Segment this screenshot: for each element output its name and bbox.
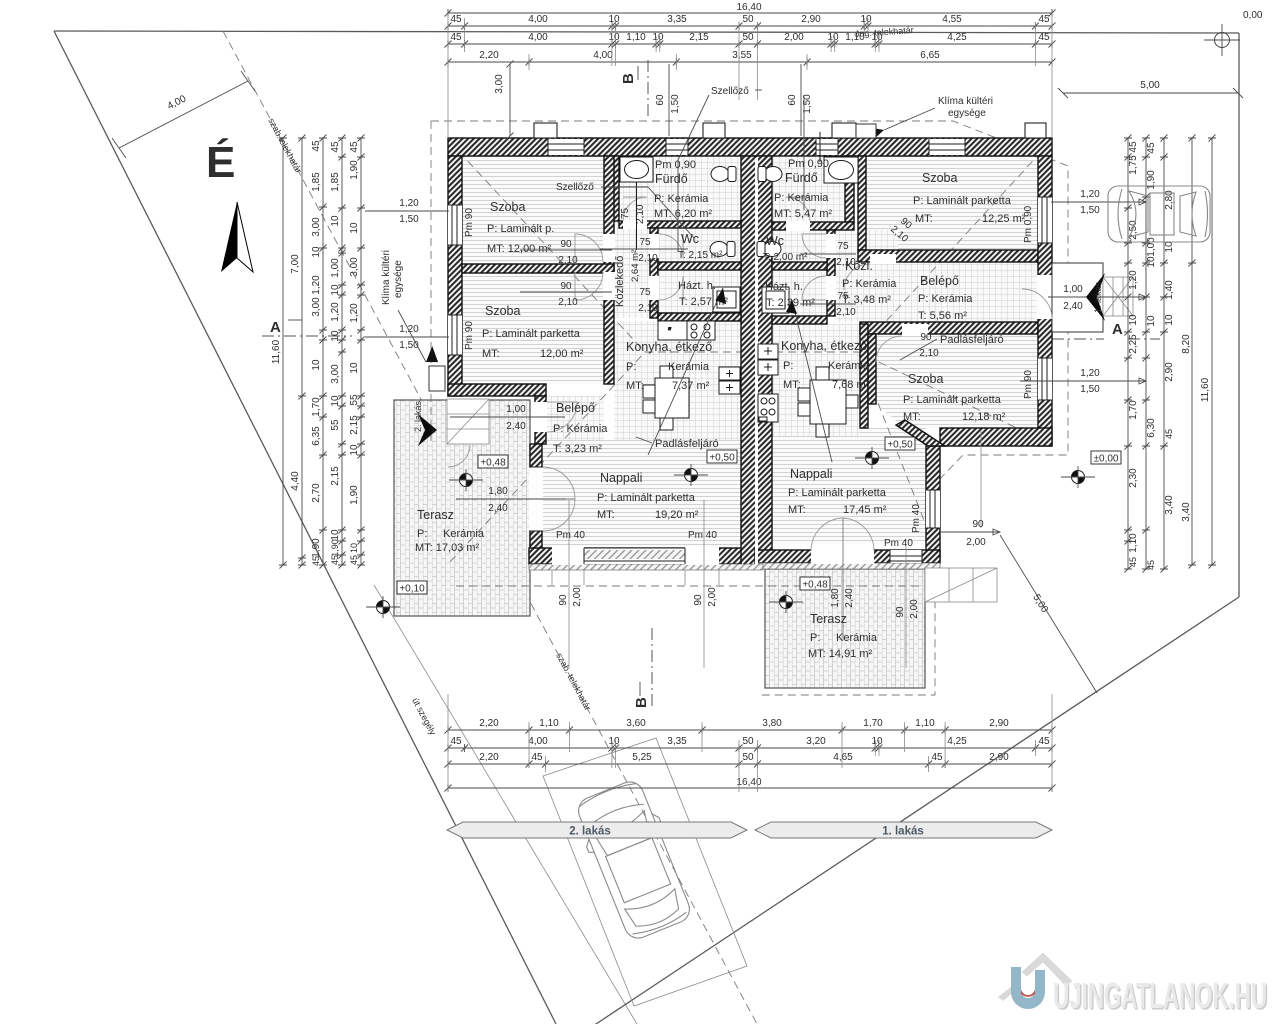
door gap south-left a [552, 547, 584, 565]
svg-text:45: 45 [1146, 560, 1156, 570]
svg-text:Nappali: Nappali [790, 467, 832, 481]
svg-text:45: 45 [450, 736, 462, 747]
svg-text:Belépő: Belépő [920, 274, 959, 288]
bottom dimension row 1 [448, 729, 1052, 731]
terrace door callout 1,80 2,40 [456, 486, 566, 514]
logo [998, 953, 1269, 1018]
svg-text:3,55: 3,55 [732, 50, 752, 61]
svg-text:1,50: 1,50 [670, 94, 681, 114]
svg-text:45: 45 [1038, 32, 1050, 43]
svg-text:10: 10 [1164, 241, 1175, 253]
bath-left south wall [619, 221, 741, 228]
dining table left [643, 366, 689, 430]
bath-left west wall [610, 156, 619, 221]
svg-text:2. lakás: 2. lakás [569, 826, 611, 838]
belepo-right floor [898, 262, 1038, 322]
svg-text:90: 90 [972, 519, 984, 530]
szoba-se west wall [868, 334, 876, 404]
szoba east wall [604, 156, 614, 384]
wc-right floor [772, 230, 827, 262]
svg-text:P: Laminált parketta: P: Laminált parketta [788, 487, 887, 499]
svg-text:10: 10 [827, 32, 839, 43]
svg-text:1,90: 1,90 [330, 539, 340, 557]
svg-text:2. lakás: 2. lakás [413, 400, 423, 432]
svg-text:50: 50 [742, 32, 754, 43]
svg-text:75: 75 [639, 287, 651, 298]
belepo-right south wall [860, 322, 1038, 334]
right chain col 3 [1163, 138, 1165, 569]
bottom dimension row 16,40 [448, 787, 1052, 789]
svg-text:3,60: 3,60 [626, 718, 646, 729]
svg-text:90: 90 [560, 281, 572, 292]
padlasfeljaro left [636, 288, 730, 455]
svg-text:Házt. h.: Házt. h. [765, 281, 803, 293]
svg-text:1,50: 1,50 [1080, 205, 1100, 216]
svg-text:T: 3,23 m²: T: 3,23 m² [553, 443, 602, 455]
svg-text:3,20: 3,20 [806, 736, 826, 747]
svg-text:Szellőző: Szellőző [556, 182, 594, 193]
svg-text:Fürdő: Fürdő [785, 171, 818, 185]
party wall [741, 156, 772, 567]
svg-text:1,20: 1,20 [1128, 270, 1139, 290]
left chain col 1 inner [360, 138, 362, 565]
svg-text:45: 45 [330, 555, 340, 565]
svg-text:P: Kerámia: P: Kerámia [918, 293, 973, 305]
svg-text:1,90: 1,90 [311, 538, 322, 558]
svg-text:1,10: 1,10 [626, 32, 646, 43]
svg-text:10: 10 [1128, 314, 1139, 326]
svg-text:Wc: Wc [681, 232, 699, 246]
bath-left floor [619, 156, 741, 221]
terrace door arcs left [543, 467, 575, 531]
svg-text:5,25: 5,25 [632, 752, 652, 763]
svg-text:45: 45 [450, 32, 462, 43]
svg-text:P: Laminált parketta: P: Laminált parketta [597, 492, 696, 504]
svg-text:90: 90 [895, 606, 906, 618]
svg-text:Szellőző: Szellőző [711, 86, 749, 97]
svg-text:1,20: 1,20 [311, 275, 322, 295]
terrace left [394, 400, 530, 616]
svg-text:2,10: 2,10 [638, 253, 658, 264]
entry steps left [447, 399, 489, 444]
door gap hazt-right [826, 276, 836, 300]
szoba-ne west wall [858, 156, 866, 250]
szoba-ne floor [866, 156, 1038, 250]
plinth band under south wall left [529, 564, 763, 570]
svg-text:MT: 6,20 m²: MT: 6,20 m² [654, 208, 712, 220]
level marker boxes [478, 455, 508, 469]
szoba-se south wall [940, 428, 1052, 446]
svg-text:50: 50 [742, 736, 754, 747]
parking stall polygon [543, 738, 747, 1006]
svg-text:P: Kerámia: P: Kerámia [553, 423, 608, 435]
svg-text:2,10: 2,10 [558, 297, 578, 308]
svg-text:3,40: 3,40 [1164, 495, 1175, 515]
svg-text:2,10: 2,10 [635, 204, 646, 224]
door gap terrace-right [811, 549, 874, 564]
door gap belepo-right entry [1037, 275, 1053, 319]
wc-left south wall [658, 262, 741, 270]
svg-text:45: 45 [1164, 429, 1174, 439]
terrace door nappali-left west [529, 467, 543, 531]
terrace right [765, 569, 925, 688]
svg-text:Pm 40: Pm 40 [556, 530, 585, 541]
chamfer wall segment [896, 420, 945, 446]
svg-text:12,00 m²: 12,00 m² [540, 348, 584, 360]
door gap wc-right [826, 234, 836, 258]
svg-text:Pm 40: Pm 40 [884, 538, 913, 549]
svg-text:Padlásfeljáró: Padlásfeljáró [655, 438, 719, 450]
north arrow [221, 202, 237, 272]
door arcs [448, 197, 1052, 640]
svg-text:+0,50: +0,50 [887, 440, 913, 451]
svg-text:55: 55 [330, 419, 341, 431]
porch steps right [1103, 277, 1133, 316]
left chain col 11,60 [282, 138, 284, 565]
szellozo top label [678, 86, 762, 252]
svg-text:6,30: 6,30 [1146, 418, 1157, 438]
szoba2 south wall [448, 384, 546, 396]
top dimension row 1 [448, 25, 1052, 27]
right chain col 11,60 [1211, 138, 1213, 565]
svg-text:10: 10 [330, 284, 341, 296]
toilet wc-left [710, 242, 735, 257]
party wall gap line [755, 158, 758, 565]
right chain col inner [1127, 138, 1129, 569]
svg-text:45: 45 [1038, 14, 1050, 25]
svg-text:4,00: 4,00 [593, 50, 613, 61]
svg-text:3,00: 3,00 [330, 364, 341, 384]
svg-text:4,55: 4,55 [942, 14, 962, 25]
svg-text:45: 45 [1128, 141, 1139, 153]
svg-text:1,20: 1,20 [330, 302, 341, 322]
svg-text:90: 90 [693, 594, 704, 606]
kitchen boxes left [719, 367, 740, 394]
svg-text:Terasz: Terasz [417, 508, 454, 522]
inner parallel path line [374, 585, 637, 1024]
svg-text:2,40: 2,40 [506, 421, 526, 432]
bath-right east wall [845, 156, 854, 222]
svg-text:10: 10 [330, 215, 341, 227]
svg-text:Kerámia: Kerámia [443, 528, 485, 540]
szellozo left label [556, 182, 694, 238]
svg-text:10: 10 [1164, 314, 1175, 326]
dimension 4,00 slanted top-left [112, 71, 255, 158]
svg-text:P:: P: [783, 360, 793, 372]
svg-text:2,10: 2,10 [836, 257, 856, 268]
stove right [758, 394, 778, 422]
svg-text:1,20: 1,20 [399, 198, 419, 209]
svg-text:1,90: 1,90 [349, 160, 360, 180]
window callout right 2 [1020, 368, 1146, 395]
svg-text:75: 75 [837, 241, 849, 252]
svg-text:10: 10 [349, 444, 360, 456]
roof hip dashed lines [450, 142, 1050, 562]
svg-text:±0,00: ±0,00 [1094, 454, 1119, 465]
svg-text:2,20: 2,20 [479, 718, 499, 729]
svg-text:10: 10 [871, 32, 883, 43]
vent line right [803, 95, 805, 210]
svg-text:1,10: 1,10 [845, 32, 865, 43]
svg-text:3,80: 3,80 [762, 718, 782, 729]
svg-text:2,10: 2,10 [836, 307, 856, 318]
belepo west wall [535, 396, 546, 444]
svg-text:2,00: 2,00 [707, 587, 718, 607]
svg-text:P: Kerámia: P: Kerámia [842, 278, 897, 290]
svg-text:MT: 17,03 m²: MT: 17,03 m² [415, 542, 480, 554]
top dimension row 16,40 [448, 12, 1052, 14]
svg-text:MT: 5,47 m²: MT: 5,47 m² [774, 208, 832, 220]
svg-text:50: 50 [742, 752, 754, 763]
svg-text:Szoba: Szoba [485, 304, 520, 318]
svg-text:Konyha, étkező: Konyha, étkező [626, 340, 712, 354]
nappali-right floor [755, 436, 926, 544]
wc-right east wall [827, 230, 835, 316]
south window left unit [584, 548, 685, 564]
circle benchmark top right [1204, 10, 1263, 56]
svg-text:MT:: MT: [788, 504, 806, 516]
toilet bath-left [711, 167, 736, 182]
svg-text:Házt. h.: Házt. h. [678, 280, 716, 292]
svg-text:1,10: 1,10 [539, 718, 559, 729]
svg-text:P: Kerámia: P: Kerámia [774, 192, 829, 204]
svg-text:12,18 m²: 12,18 m² [962, 411, 1006, 423]
bottom dimension row 3 [448, 763, 1052, 765]
bath-right south wall [772, 222, 854, 230]
svg-text:10: 10 [652, 32, 664, 43]
svg-text:Szoba: Szoba [922, 171, 957, 185]
toilet wc-right [757, 242, 781, 257]
svg-text:45: 45 [1038, 736, 1050, 747]
svg-text:MT: 12,00 m²: MT: 12,00 m² [487, 243, 552, 255]
chimney box 4 [1025, 123, 1046, 138]
szoba-ne south wall [858, 250, 1038, 262]
svg-text:2,10: 2,10 [919, 348, 939, 359]
dining table right [798, 367, 858, 437]
svg-text:1,50: 1,50 [399, 214, 419, 225]
hazt-right south wall [772, 316, 827, 324]
padlasfeljaro right [786, 300, 1004, 462]
svg-text:19,20 m²: 19,20 m² [655, 509, 699, 521]
svg-text:3,00: 3,00 [349, 257, 360, 277]
corridor-right floor [835, 230, 898, 322]
belepo-left floor [546, 396, 604, 462]
svg-text:Pm 40: Pm 40 [688, 530, 717, 541]
svg-text:10: 10 [1146, 315, 1157, 327]
door gap szoba1 [603, 234, 615, 262]
svg-text:45: 45 [531, 752, 543, 763]
svg-text:0,00: 0,00 [1243, 10, 1263, 21]
door callout right 1,00 2,40 [1048, 284, 1146, 312]
svg-text:UJINGATLANOK.HU: UJINGATLANOK.HU [1053, 977, 1267, 1017]
terrace steps right [925, 568, 997, 602]
svg-text:4,25: 4,25 [947, 736, 967, 747]
svg-text:45: 45 [311, 556, 321, 566]
svg-text:16,40: 16,40 [736, 777, 761, 788]
svg-text:1,70: 1,70 [311, 397, 322, 417]
svg-text:P:: P: [810, 632, 820, 644]
svg-text:2,90: 2,90 [801, 14, 821, 25]
svg-text:A: A [270, 319, 281, 336]
svg-text:MT:: MT: [915, 213, 933, 225]
window bath-left north [666, 139, 688, 155]
car top right [1108, 186, 1210, 242]
svg-text:MT:: MT: [597, 509, 615, 521]
svg-text:Fürdő: Fürdő [655, 172, 688, 186]
svg-text:P:: P: [417, 528, 427, 540]
svg-text:6,65: 6,65 [920, 50, 940, 61]
section A right [1052, 321, 1160, 339]
svg-text:45: 45 [349, 141, 360, 153]
svg-text:2,15: 2,15 [349, 415, 360, 435]
chimney box 3 [832, 123, 856, 138]
svg-text:10: 10 [330, 330, 341, 342]
svg-text:1,00: 1,00 [506, 404, 526, 415]
svg-text:É: É [206, 137, 235, 187]
szoba divider wall [462, 264, 614, 273]
dimension chains [271, 2, 1216, 792]
washbasin left [620, 157, 653, 250]
left chain col 3 [322, 138, 324, 565]
wc-right south wall [772, 262, 827, 270]
svg-text:1,85: 1,85 [311, 172, 322, 192]
svg-text:2,15: 2,15 [330, 466, 341, 486]
door gap wc-left [649, 234, 659, 258]
svg-text:3,00: 3,00 [311, 297, 322, 317]
entrance arrow right [1086, 273, 1105, 321]
svg-text:MT:: MT: [783, 379, 801, 391]
svg-text:Szoba: Szoba [908, 372, 943, 386]
svg-text:10: 10 [349, 362, 360, 374]
bath-right floor [772, 156, 845, 222]
property boundary left [54, 31, 556, 1024]
svg-text:2,30: 2,30 [1128, 468, 1139, 488]
svg-text:1,10: 1,10 [915, 718, 935, 729]
south window stub left b [693, 500, 718, 668]
svg-text:B: B [633, 697, 650, 708]
svg-text:4,00: 4,00 [528, 736, 548, 747]
entrance arrow left [418, 414, 437, 446]
nappali-right south wall [755, 550, 940, 563]
svg-text:7,00: 7,00 [290, 254, 301, 274]
west lower wall [530, 444, 542, 564]
svg-text:A: A [1112, 321, 1123, 338]
svg-text:75: 75 [639, 237, 651, 248]
klima left label [381, 250, 445, 391]
svg-text:Kerámia: Kerámia [828, 360, 870, 372]
corridor-left east wall [650, 228, 658, 318]
svg-text:Pm 0,90: Pm 0,90 [1023, 205, 1034, 243]
kitchen counter left [658, 321, 687, 340]
svg-text:75: 75 [620, 207, 631, 219]
svg-text:MT:: MT: [482, 348, 500, 360]
svg-text:2,90: 2,90 [1164, 362, 1175, 382]
svg-text:10: 10 [871, 736, 883, 747]
window bath-right north [816, 139, 838, 155]
dimension 5,00 top right [1058, 80, 1243, 98]
door gap szoba-se [902, 324, 928, 336]
section B top [620, 60, 648, 120]
extras [447, 186, 1269, 1018]
svg-text:10: 10 [608, 736, 620, 747]
svg-text:90: 90 [558, 594, 569, 606]
south wall left unit [529, 548, 763, 564]
svg-text:10: 10 [1146, 256, 1157, 268]
svg-text:10: 10 [608, 32, 620, 43]
svg-text:Wc: Wc [766, 234, 784, 248]
svg-text:B: B [620, 73, 637, 84]
svg-text:17,45 m²: 17,45 m² [843, 504, 887, 516]
svg-text:10: 10 [330, 395, 341, 407]
svg-text:MT: 14,91 m²: MT: 14,91 m² [808, 648, 873, 660]
szoba1 floor [462, 156, 604, 264]
svg-text:2,00: 2,00 [909, 599, 920, 619]
svg-text:1,00: 1,00 [1146, 237, 1157, 257]
svg-text:Nappali: Nappali [600, 471, 642, 485]
south window stub right [895, 546, 920, 668]
svg-text:45: 45 [311, 140, 322, 152]
svg-text:2,20: 2,20 [479, 50, 499, 61]
door gap bath-right [786, 221, 810, 231]
svg-text:1,70: 1,70 [1128, 400, 1139, 420]
right chain col 2 [1145, 138, 1147, 569]
svg-text:45: 45 [1146, 142, 1157, 154]
svg-text:+0,10: +0,10 [399, 584, 425, 595]
nappali-left floor [542, 440, 741, 548]
stove left [687, 321, 715, 340]
svg-text:4,25: 4,25 [947, 32, 967, 43]
kitchen boxes right [758, 344, 778, 375]
svg-text:3,00: 3,00 [494, 74, 505, 94]
svg-text:1. lakás: 1. lakás [882, 826, 924, 838]
svg-text:Pm 0,90: Pm 0,90 [788, 158, 829, 170]
svg-text:60: 60 [655, 94, 666, 106]
hazt-right floor [772, 270, 827, 316]
right chain col 8,20 [1191, 138, 1193, 565]
svg-text:11,60: 11,60 [1200, 377, 1211, 402]
svg-text:6,35: 6,35 [311, 426, 322, 446]
svg-text:2,70: 2,70 [311, 483, 322, 503]
svg-text:45: 45 [450, 14, 462, 25]
svg-text:P: Laminált p.: P: Laminált p. [487, 223, 554, 235]
svg-text:P: Laminált parketta: P: Laminált parketta [903, 394, 1002, 406]
south window right unit [890, 550, 922, 563]
porch right outline [1052, 263, 1103, 332]
svg-text:P:: P: [626, 361, 636, 373]
svg-text:T: 5,56 m²: T: 5,56 m² [918, 310, 967, 322]
door gap south-left b [685, 547, 719, 565]
chimney box 1 [534, 123, 557, 138]
svg-text:MT:: MT: [903, 411, 921, 423]
door gap szoba2 [603, 272, 615, 300]
svg-text:10: 10 [608, 14, 620, 25]
boundary right vertical [1238, 33, 1240, 597]
svg-text:P: Laminált parketta: P: Laminált parketta [913, 195, 1012, 207]
svg-text:1,20: 1,20 [1080, 368, 1100, 379]
svg-text:10: 10 [311, 359, 322, 371]
top dimension row 2 [448, 43, 1052, 45]
wc-left floor [658, 228, 741, 262]
door callout left 1,00 2,40 [450, 404, 565, 432]
svg-text:1,50: 1,50 [1080, 384, 1100, 395]
banner 2.lakas [447, 822, 747, 838]
door gap bath-left [623, 220, 647, 229]
svg-text:1,90: 1,90 [1146, 170, 1157, 190]
benchmark symbols [449, 469, 483, 491]
svg-text:1,75: 1,75 [1128, 155, 1139, 175]
svg-text:75: 75 [837, 291, 849, 302]
svg-text:4,00: 4,00 [528, 14, 548, 25]
